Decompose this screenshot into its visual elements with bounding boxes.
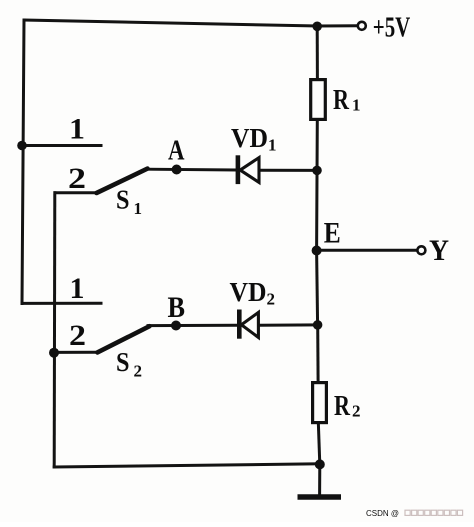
svg-text:VD: VD <box>230 277 267 307</box>
wire top rail <box>24 20 317 26</box>
node B <box>171 321 181 331</box>
svg-text:S: S <box>116 347 130 377</box>
label VD1 <box>231 123 277 155</box>
ground <box>298 494 342 499</box>
wire bottom rail <box>54 464 320 467</box>
switch S1 arm <box>97 169 148 193</box>
wire node A to diode VD1 <box>146 168 236 172</box>
svg-text:1: 1 <box>134 199 143 218</box>
svg-text:E: E <box>324 217 341 250</box>
svg-text:2: 2 <box>352 402 361 421</box>
label S1 <box>116 185 142 219</box>
label R1 <box>333 85 361 116</box>
svg-text:A: A <box>168 136 185 167</box>
wire VD2 cathode-side to rail <box>260 323 318 326</box>
node: VD1 anode / rail junction <box>312 166 322 176</box>
label R2 <box>334 391 361 422</box>
node A <box>172 165 182 175</box>
wire node E to terminal Y <box>317 249 418 252</box>
svg-text:1: 1 <box>352 96 361 115</box>
svg-text:CSDN @: CSDN @ <box>366 509 399 518</box>
diode VD1 <box>236 155 259 184</box>
label VD2 <box>230 277 276 309</box>
wire +5V stub <box>317 24 357 27</box>
resistor R2 <box>313 383 327 423</box>
wire main rail: top junction to R1 <box>316 26 319 79</box>
node: bottom rail junction <box>315 459 325 469</box>
svg-text:2: 2 <box>134 362 143 381</box>
svg-text:1: 1 <box>69 113 85 146</box>
label S2 <box>116 347 142 381</box>
wire VD1 cathode-side to rail <box>260 169 318 172</box>
wire main rail: E to VD2 junction <box>317 251 318 325</box>
node: left rail / S1 pole-1 junction <box>17 141 27 151</box>
svg-text:B: B <box>168 291 186 324</box>
terminal +5V (open circle) <box>358 22 366 30</box>
node: S2 pole-2 / middle wire junction <box>49 348 59 358</box>
watermark CSDN <box>366 509 463 518</box>
node: VD2 anode / rail junction <box>313 320 323 330</box>
wire ground stub <box>318 464 321 494</box>
diode VD2 <box>237 310 258 339</box>
wire S2 pole-1 terminal <box>22 302 101 305</box>
wire left rail <box>22 20 24 304</box>
wire R2 to bottom junction <box>318 425 319 465</box>
wire S1 pole-2 terminal <box>55 191 97 194</box>
svg-text:R: R <box>334 391 351 422</box>
svg-text:1: 1 <box>268 136 277 155</box>
terminal Y (open circle) <box>417 246 425 254</box>
switch S2 arm <box>97 326 149 352</box>
svg-text:VD: VD <box>231 123 268 153</box>
svg-text:2: 2 <box>68 162 86 195</box>
wire main rail: VD2 junction to R2 <box>316 325 319 382</box>
svg-text:R: R <box>333 85 350 116</box>
resistor R1 <box>311 80 326 120</box>
svg-text:2: 2 <box>267 290 276 309</box>
svg-text:2: 2 <box>69 319 86 352</box>
svg-text:Y: Y <box>429 234 449 267</box>
svg-text:S: S <box>116 185 130 215</box>
wire S2 pole-2 terminal <box>54 351 97 354</box>
node: top junction on +5V rail <box>312 22 322 32</box>
svg-text:+5V: +5V <box>373 12 411 43</box>
svg-text:1: 1 <box>70 272 85 305</box>
node E <box>312 246 322 256</box>
wire main rail: R1 to node E <box>315 121 319 251</box>
wire middle vertical (S1 pole-2 down to bottom rail) <box>53 193 57 467</box>
wire S1 pole-1 terminal <box>22 144 101 147</box>
wire node B to diode VD2 <box>148 324 236 327</box>
